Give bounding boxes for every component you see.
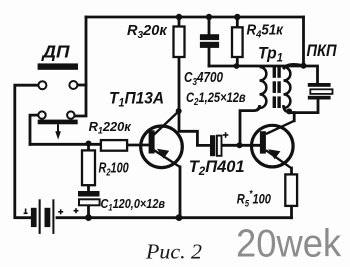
svg-text:R1220к: R1220к (89, 119, 133, 136)
svg-text:R2100: R2100 (99, 159, 129, 178)
svg-text:ДП: ДП (40, 42, 70, 61)
svg-text:R320к: R320к (127, 23, 168, 41)
svg-text:Тр1: Тр1 (258, 44, 283, 65)
svg-text:Т1П13А: Т1П13А (109, 90, 164, 109)
svg-text:С34700: С34700 (184, 69, 223, 88)
svg-text:R451к: R451к (247, 22, 284, 41)
svg-text:С1120,0×12в: С1120,0×12в (101, 196, 166, 213)
svg-text:С21,25×12в: С21,25×12в (186, 90, 246, 107)
svg-text:Т2П401: Т2П401 (189, 158, 245, 178)
svg-text:R5*100: R5*100 (237, 188, 271, 208)
svg-text:Рис. 2: Рис. 2 (145, 240, 202, 264)
svg-text:ПКП: ПКП (307, 42, 338, 60)
svg-text:20wek: 20wek (236, 222, 341, 265)
